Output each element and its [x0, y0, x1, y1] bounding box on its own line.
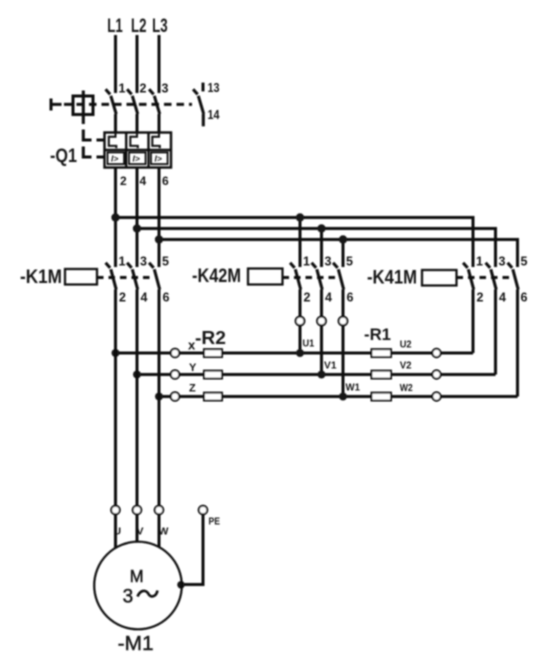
K42M terminal circle 1 — [296, 317, 305, 326]
svg-text:3: 3 — [140, 255, 147, 269]
terminal circle U2 — [432, 349, 440, 357]
row 2 wire Y-V1-V2 — [137, 373, 496, 376]
svg-text:3: 3 — [123, 587, 134, 608]
wire K41M pole3 down to row3 — [516, 290, 519, 397]
breaker Q1 mechanical linkage dashed line — [64, 103, 192, 106]
svg-text:M: M — [130, 566, 144, 586]
wire L1 supply — [114, 35, 117, 93]
wire W into motor — [158, 514, 161, 547]
terminal circle X — [171, 349, 180, 358]
resistor R2c — [204, 393, 222, 401]
motor M1 circle — [94, 542, 182, 630]
branch wire bus1 to K42M pole1 — [299, 218, 302, 268]
svg-text:1: 1 — [303, 255, 310, 269]
Q1 thermal release hook pole 3 — [152, 133, 160, 149]
junction dot U1 — [296, 349, 304, 357]
terminal circle PE — [199, 506, 208, 515]
Q1 magnetic release box pole 1 — [108, 152, 125, 164]
contactor K1M coil box — [65, 269, 97, 285]
svg-text:L3: L3 — [152, 16, 168, 37]
K41M contact pole 3 — [508, 263, 519, 290]
K41M contact pole 2 — [486, 263, 497, 290]
resistor R1a — [372, 349, 392, 357]
junction dot PE on motor — [177, 581, 185, 589]
svg-text:W2: W2 — [400, 383, 413, 394]
svg-text:1: 1 — [476, 255, 483, 269]
K41M linkage dashes — [457, 276, 512, 279]
breaker Q1 linkage bracket upper — [83, 130, 91, 141]
junction dot bus1-phase1 — [111, 213, 119, 221]
bus line 3 — [159, 240, 518, 268]
wire K42M t1 to U1 — [299, 325, 302, 353]
terminal circle Z — [171, 392, 180, 401]
wire phase3 Q1 to K1M — [158, 168, 161, 268]
K42M terminal circle 3 — [339, 317, 348, 326]
junction dot bus3-phase3 — [155, 235, 163, 243]
svg-text:2: 2 — [140, 82, 147, 96]
resistor R2b — [204, 371, 222, 379]
resistor R1b — [372, 371, 392, 379]
svg-text:-Q1: -Q1 — [50, 146, 77, 167]
svg-text:W1: W1 — [346, 383, 361, 394]
breaker Q1 pole 2 contact — [127, 89, 138, 132]
wire phase2 to motor — [136, 290, 139, 506]
svg-text:-K41M: -K41M — [367, 267, 417, 289]
wire L2 supply — [136, 35, 139, 93]
breaker Q1 linkage bracket lower — [83, 147, 91, 158]
contactor K42M coil box — [248, 269, 283, 285]
Q1 magnetic release box pole 2 — [129, 152, 146, 164]
svg-text:I>: I> — [133, 154, 140, 164]
svg-text:14: 14 — [208, 108, 220, 122]
junction dot W1 — [339, 393, 347, 401]
junction dot bus1-K42M — [296, 213, 304, 221]
row 1 wire X-U1-U2 — [116, 352, 474, 355]
svg-text:2: 2 — [119, 291, 126, 305]
Q1 magnetic release box pole 3 — [151, 152, 168, 164]
svg-text:13: 13 — [208, 81, 220, 95]
K1M contact pole 2 — [127, 263, 138, 290]
wire K42M t3 to W1 — [342, 325, 345, 396]
wire phase1 to motor — [114, 290, 117, 506]
K1M contact pole 1 — [106, 263, 117, 290]
svg-text:PE: PE — [209, 517, 221, 528]
K42M pole3 wire to terminal — [342, 290, 345, 317]
svg-text:I>: I> — [111, 154, 118, 164]
svg-text:5: 5 — [521, 255, 528, 269]
resistor R1c — [372, 393, 392, 401]
svg-text:4: 4 — [499, 291, 506, 305]
svg-text:-K42M: -K42M — [192, 265, 241, 287]
breaker Q1 actuator square — [73, 91, 93, 125]
wire K42M t2 to V1 — [320, 325, 323, 374]
branch wire bus2 to K42M pole2 — [320, 229, 323, 268]
terminal circle W2 — [432, 392, 440, 400]
wire V into motor — [136, 514, 139, 542]
terminal circle Y — [171, 370, 180, 379]
svg-text:6: 6 — [162, 174, 169, 188]
contactor K41M coil box — [422, 270, 457, 286]
breaker Q1 pole 1 contact — [106, 89, 117, 132]
svg-text:4: 4 — [141, 291, 148, 305]
svg-text:2: 2 — [477, 291, 484, 305]
K42M pole2 wire to terminal — [320, 290, 323, 317]
svg-text:L2: L2 — [131, 16, 147, 37]
svg-text:2: 2 — [120, 174, 127, 188]
svg-text:-K1M: -K1M — [20, 266, 62, 288]
junction dot bus3-K42M — [339, 235, 347, 243]
wire K41M pole1 down to row1 — [472, 290, 475, 354]
svg-text:6: 6 — [163, 291, 170, 305]
junction dot row3-phase3 — [155, 393, 163, 401]
K1M linkage dashes — [97, 276, 152, 279]
svg-text:6: 6 — [521, 291, 528, 305]
svg-text:6: 6 — [347, 291, 354, 305]
svg-text:3: 3 — [499, 255, 506, 269]
wire K41M pole2 down to row2 — [494, 290, 497, 375]
K42M contact pole 2 — [312, 263, 323, 290]
wire phase1 Q1 to K1M — [114, 168, 117, 268]
motor tilde symbol — [138, 591, 158, 597]
svg-text:5: 5 — [346, 255, 353, 269]
row 3 wire Z-W1-W2 — [159, 395, 518, 398]
svg-text:-R1: -R1 — [364, 326, 391, 344]
wire U into motor — [114, 514, 117, 548]
svg-text:-M1: -M1 — [118, 633, 154, 655]
K42M linkage dashes — [283, 276, 337, 279]
breaker Q1 trip unit box — [105, 133, 172, 168]
wire PE to motor frame — [182, 514, 204, 584]
svg-text:-R2: -R2 — [195, 327, 226, 348]
svg-text:4: 4 — [140, 174, 147, 188]
bus line 2 — [137, 229, 496, 268]
svg-text:2: 2 — [304, 291, 311, 305]
terminal circle V2 — [432, 370, 440, 378]
svg-text:5: 5 — [162, 255, 169, 269]
svg-text:U1: U1 — [303, 339, 315, 350]
junction dot bus2-phase2 — [133, 224, 141, 232]
junction dot V1 — [318, 371, 326, 379]
motor terminal circle U — [111, 506, 120, 515]
svg-text:3: 3 — [162, 82, 169, 96]
Q1 thermal release hook pole 2 — [130, 133, 138, 149]
K42M contact pole 3 — [333, 263, 344, 290]
K42M contact pole 1 — [290, 263, 301, 290]
K42M terminal circle 2 — [317, 317, 326, 326]
svg-text:4: 4 — [325, 291, 332, 305]
svg-text:Z: Z — [189, 383, 196, 395]
bus line 1 — [116, 218, 474, 268]
resistor R2a — [204, 349, 222, 357]
branch wire bus3 to K42M pole3 — [342, 240, 345, 268]
svg-text:I>: I> — [155, 154, 162, 164]
svg-text:V1: V1 — [324, 361, 337, 372]
K41M contact pole 1 — [463, 263, 474, 290]
motor terminal circle W — [155, 506, 164, 515]
svg-text:U2: U2 — [400, 339, 412, 350]
junction dot bus2-K42M — [317, 224, 325, 232]
motor terminal circle V — [133, 506, 142, 515]
wire phase3 to motor — [158, 290, 161, 506]
breaker Q1 pole 3 contact — [149, 89, 160, 132]
wire L3 supply — [158, 35, 161, 93]
svg-text:3: 3 — [325, 255, 332, 269]
svg-text:Y: Y — [189, 362, 197, 374]
Q1 thermal release hook pole 1 — [109, 133, 117, 149]
wire phase2 Q1 to K1M — [136, 168, 139, 268]
junction dot row2-phase2 — [133, 371, 141, 379]
svg-text:L1: L1 — [107, 16, 123, 37]
K42M pole1 wire to terminal — [299, 290, 302, 317]
K1M contact pole 3 — [149, 263, 160, 290]
svg-text:1: 1 — [119, 255, 126, 269]
svg-text:1: 1 — [119, 82, 126, 96]
junction dot row1-phase1 — [112, 349, 120, 357]
svg-text:V2: V2 — [400, 361, 412, 372]
breaker Q1 auxiliary contact 13-14 — [193, 83, 204, 127]
breaker Q1 manual actuator handle — [51, 99, 62, 111]
